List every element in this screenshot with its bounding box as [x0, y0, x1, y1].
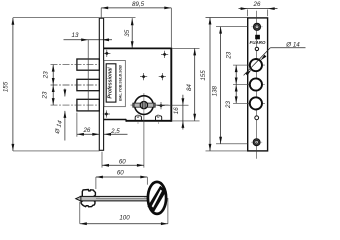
key bit — [81, 190, 95, 207]
cam band cap right — [153, 103, 155, 108]
lock body bottom edge left part — [104, 119, 126, 121]
lock body bottom step — [125, 119, 127, 122]
lock body right edge — [170, 48, 172, 122]
bolt 1 — [77, 59, 99, 70]
bow slot white stripe — [152, 190, 162, 208]
svg-text:155: 155 — [3, 81, 10, 92]
big hole 2 — [247, 84, 265, 86]
svg-text:60: 60 — [119, 158, 126, 165]
svg-text:60: 60 — [117, 169, 124, 176]
extension top hline — [13, 17, 136, 19]
svg-text:100: 100 — [119, 214, 130, 221]
bottom screw — [251, 139, 262, 146]
key slot — [143, 102, 145, 109]
bolt centerline 1 — [51, 64, 100, 66]
svg-text:23: 23 — [225, 101, 232, 109]
extension bottom hline — [13, 150, 100, 152]
big hole 1 — [247, 64, 265, 66]
cylinder vertical centerline + extension to 60 dim — [143, 93, 145, 167]
cylinder vertical centerline overlay — [143, 96, 145, 114]
logo square — [255, 35, 260, 40]
plate centerline — [256, 11, 258, 159]
top screw — [251, 23, 262, 30]
bolt retracted-face line (13 extension) — [87, 40, 89, 111]
svg-text:Ø 14: Ø 14 — [285, 41, 300, 48]
svg-text:23: 23 — [225, 51, 232, 59]
faceplate front — [248, 18, 268, 151]
key bow — [148, 182, 166, 214]
svg-text:23: 23 — [42, 71, 49, 79]
cylinder outer circle — [135, 96, 154, 115]
svg-text:23: 23 — [41, 91, 48, 99]
svg-text:35: 35 — [124, 29, 131, 36]
svg-text:Professional: Professional — [107, 67, 113, 99]
bow slot band — [148, 186, 167, 213]
screw mark top-right — [161, 51, 168, 58]
bolt centerline 3 — [51, 104, 100, 106]
svg-text:FUARO: FUARO — [249, 40, 266, 45]
bolt 3 — [77, 99, 99, 111]
screw mark bottom-left — [103, 110, 110, 117]
bolt 2 — [77, 79, 99, 90]
faceplate (side view) — [99, 18, 103, 150]
key tip — [76, 196, 81, 201]
small hole bottom — [255, 116, 259, 120]
screw mark mid-right — [159, 73, 166, 80]
cam band cap left — [133, 103, 135, 108]
screw boss right — [156, 116, 162, 121]
hole centerline extensions — [233, 64, 249, 66]
svg-text:155: 155 — [200, 70, 207, 81]
screw mark right of cylinder — [157, 102, 164, 109]
svg-text:89,5: 89,5 — [132, 1, 145, 8]
lock body top edge — [104, 47, 172, 49]
sticker Professional box — [106, 64, 116, 102]
screw boss left — [135, 116, 141, 121]
screw mark top-left — [103, 50, 110, 57]
svg-text:26: 26 — [253, 1, 261, 8]
small hole top — [255, 47, 258, 50]
svg-text:138: 138 — [211, 85, 218, 96]
svg-text:2,5: 2,5 — [110, 128, 120, 135]
bolt centerline 2 — [51, 84, 100, 86]
key shaft — [80, 196, 149, 201]
svg-text:84: 84 — [186, 84, 193, 91]
svg-text:13: 13 — [72, 32, 79, 39]
cylinder horizontal centerline — [131, 104, 169, 106]
cylinder cam band — [133, 103, 155, 107]
lock body bottom edge right part — [126, 120, 171, 122]
svg-text:16: 16 — [173, 107, 180, 114]
sticker outer — [104, 60, 125, 106]
cylinder hub — [140, 101, 147, 108]
svg-text:BAL.YOB.SULB.SOB: BAL.YOB.SULB.SOB — [118, 65, 122, 101]
screw mark mid-left — [140, 73, 147, 80]
big hole 3 — [247, 102, 265, 104]
